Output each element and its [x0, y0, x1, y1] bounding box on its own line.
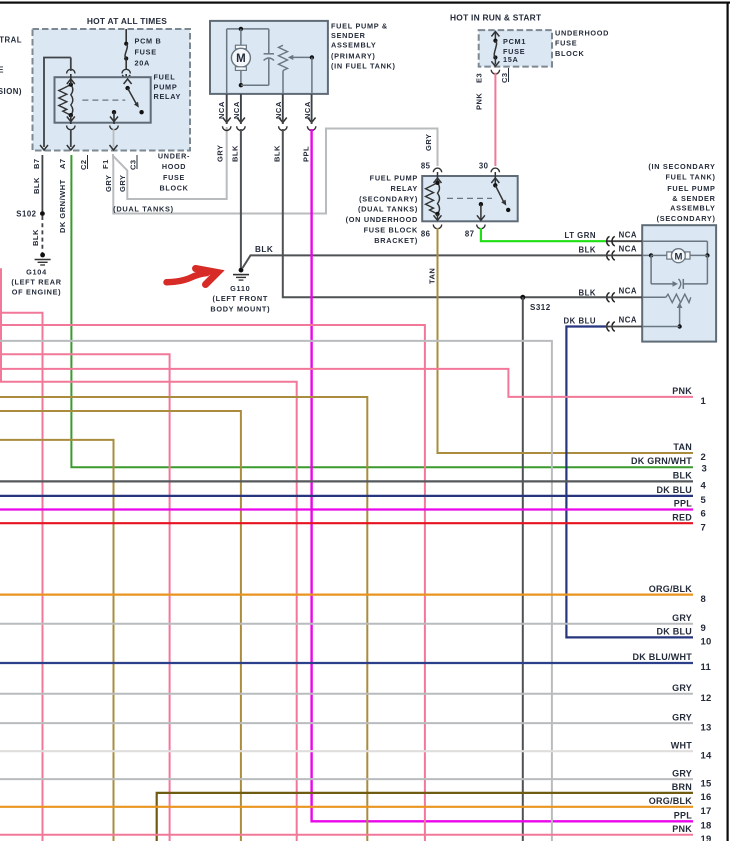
svg-text:FUEL PUMP: FUEL PUMP	[370, 174, 418, 183]
svg-text:C2: C2	[79, 159, 88, 170]
fuel sender resistor (secondary, horizontal zigzag)	[666, 294, 691, 302]
svg-text:PPL: PPL	[674, 811, 693, 821]
svg-text:HOT AT ALL TIMES: HOT AT ALL TIMES	[87, 16, 167, 26]
svg-text:20A: 20A	[135, 59, 151, 68]
svg-text:DK GRN/WHT: DK GRN/WHT	[58, 179, 67, 233]
relay 2 switch	[493, 183, 497, 187]
svg-text:RELAY: RELAY	[390, 184, 418, 193]
svg-text:OF ENGINE): OF ENGINE)	[12, 288, 62, 297]
wire GRY exit 12	[0, 693, 693, 695]
svg-text:7: 7	[701, 522, 707, 533]
svg-text:M: M	[236, 53, 246, 65]
wire switch output to F1	[113, 112, 115, 124]
wire TAN route 1	[0, 397, 367, 841]
svg-text:DK BLU: DK BLU	[564, 317, 596, 326]
svg-text:9: 9	[701, 623, 707, 634]
fuse PCM1 15A	[491, 32, 499, 37]
wire DK BLU exit 5	[0, 495, 693, 497]
connector (( DK BLU	[607, 322, 610, 332]
wire GRY exit 13	[0, 722, 693, 724]
sender wiper arrow (primary)	[292, 56, 312, 58]
pin 87	[480, 204, 482, 219]
primary pump inner wiring top rail	[227, 28, 269, 30]
svg-text:NCA: NCA	[274, 101, 283, 119]
svg-text:BRN: BRN	[672, 782, 692, 792]
svg-text:(LEFT REAR: (LEFT REAR	[11, 278, 61, 287]
svg-text:PNK: PNK	[475, 93, 484, 110]
svg-text:BLK: BLK	[673, 471, 692, 481]
svg-text:16: 16	[701, 792, 712, 803]
svg-text:5: 5	[701, 495, 707, 506]
wire PNK route 2	[0, 313, 43, 841]
pin stub wires primary	[226, 94, 228, 124]
svg-text:DK GRN/WHT: DK GRN/WHT	[631, 456, 692, 466]
wire GRY exit 15	[0, 778, 693, 780]
svg-text:1: 1	[701, 396, 707, 407]
svg-text:LT GRN: LT GRN	[565, 231, 596, 240]
fuel pump relay box	[55, 77, 151, 123]
svg-text:TAN: TAN	[673, 442, 692, 452]
connector (( BLK	[607, 293, 610, 303]
svg-text:FUEL PUMP: FUEL PUMP	[667, 184, 715, 193]
svg-text:6: 6	[701, 509, 707, 520]
svg-text:(IN SECONDARY: (IN SECONDARY	[648, 162, 715, 171]
svg-text:GRY: GRY	[216, 145, 225, 162]
wire PPL exit 6	[0, 508, 693, 510]
primary pump pin connectors (arrows+arcs)	[223, 118, 231, 123]
underhood fuse block 2 (dashed box)	[479, 30, 552, 67]
svg-text:NCA: NCA	[619, 287, 637, 296]
svg-text:PUMP: PUMP	[154, 82, 178, 91]
svg-text:(SECONDARY): (SECONDARY)	[359, 194, 418, 203]
svg-text:BLK: BLK	[31, 229, 40, 246]
svg-text:11: 11	[701, 662, 712, 673]
relay switch output contact	[112, 110, 116, 114]
page top rule	[0, 2, 730, 4]
page right rule	[727, 2, 729, 841]
svg-text:(ON UNDERHOOD: (ON UNDERHOOD	[346, 215, 418, 224]
pin 86	[437, 214, 439, 220]
svg-text:GRY: GRY	[672, 683, 692, 693]
wire PNK fuse to relay pin 30	[494, 73, 496, 166]
svg-text:SION): SION)	[0, 87, 22, 96]
svg-text:TAN: TAN	[427, 268, 436, 284]
svg-text:12: 12	[701, 693, 712, 704]
svg-text:DK BLU: DK BLU	[657, 627, 693, 637]
wire TAN route 2	[0, 411, 241, 841]
wire PNK left-edge route (down then right then down)	[1, 268, 297, 841]
svg-text:NCA: NCA	[619, 316, 637, 325]
connector (( LT GRN	[607, 236, 610, 246]
fuse PCM B 20A	[125, 29, 127, 44]
svg-text:& SENDER: & SENDER	[672, 194, 715, 203]
relay pin arcs/arrows	[67, 79, 75, 84]
fuel pump and sender assembly (secondary) box	[642, 225, 716, 341]
svg-text:BLK: BLK	[578, 246, 596, 255]
svg-text:FUEL: FUEL	[154, 73, 176, 82]
wire BLK exit 4	[0, 480, 693, 482]
wire TAN route 3	[0, 440, 114, 841]
svg-text:15: 15	[701, 778, 713, 789]
svg-text:S312: S312	[530, 303, 551, 312]
relay switch blade	[125, 86, 129, 90]
svg-text:RED: RED	[672, 512, 692, 522]
red annotation arrow pointing to G110	[167, 273, 208, 282]
svg-text:FUSE: FUSE	[555, 39, 577, 48]
svg-text:G104: G104	[26, 268, 47, 277]
svg-text:G110: G110	[230, 284, 250, 293]
svg-text:BRACKET): BRACKET)	[374, 236, 418, 245]
svg-text:FUSE: FUSE	[135, 48, 157, 57]
ground G110	[239, 268, 244, 273]
svg-text:PPL: PPL	[301, 146, 310, 162]
svg-text:GRY: GRY	[424, 134, 433, 151]
splice S102	[40, 211, 45, 216]
wire PNK route 3	[0, 325, 425, 841]
motor M (primary)	[240, 29, 242, 46]
svg-text:17: 17	[701, 806, 712, 817]
svg-text:BLK: BLK	[32, 177, 41, 194]
svg-text:BLOCK: BLOCK	[159, 183, 188, 192]
svg-text:UNDER-: UNDER-	[158, 152, 190, 161]
relay dashed link coil-switch	[82, 99, 125, 101]
svg-text:10: 10	[701, 637, 712, 648]
wire PNK exit 1 (jog)	[0, 369, 693, 397]
svg-text:ASSEMBLY: ASSEMBLY	[331, 41, 376, 50]
svg-text:M: M	[674, 251, 682, 262]
capacitor loop (secondary)	[650, 255, 652, 284]
wire coil-bottom to A7	[70, 115, 72, 124]
svg-text:GRY: GRY	[672, 712, 692, 722]
svg-text:TRAL: TRAL	[0, 36, 22, 45]
svg-text:C3: C3	[129, 159, 138, 170]
connector arc at relay pin 30-equివ (fuse to relay)	[122, 69, 130, 73]
wire ORG/BLK exit 17	[0, 806, 693, 808]
svg-text:BODY MOUNT): BODY MOUNT)	[210, 305, 270, 314]
svg-text:30: 30	[479, 162, 489, 171]
wire BLK S312 down to bottom	[522, 297, 524, 841]
svg-text:19: 19	[701, 834, 712, 841]
svg-text:FUSE: FUSE	[163, 173, 185, 182]
svg-text:BLK: BLK	[578, 288, 596, 297]
svg-text:NCA: NCA	[303, 101, 312, 119]
svg-text:GRY: GRY	[118, 175, 127, 192]
svg-text:ORG/BLK: ORG/BLK	[649, 796, 692, 806]
wire GRY F1 to primary pump GRY pin	[113, 127, 227, 199]
svg-text:(IN FUEL TANK): (IN FUEL TANK)	[331, 62, 396, 71]
relay coil	[59, 85, 71, 116]
svg-text:PNK: PNK	[672, 824, 692, 834]
svg-text:E3: E3	[475, 73, 484, 83]
wire ORG/BLK exit 8	[0, 593, 693, 595]
wire DK GRN/WHT: A7 down, right, exit 3	[71, 155, 693, 467]
svg-text:86: 86	[421, 230, 431, 239]
wire WHT exit 14	[0, 750, 693, 752]
svg-text:RELAY: RELAY	[154, 92, 182, 101]
svg-text:2: 2	[701, 452, 707, 463]
wire PPL primary to exit 18	[312, 129, 693, 821]
wire GRY exit 9	[0, 623, 693, 625]
svg-text:GRY: GRY	[672, 768, 692, 778]
wire BRN exit 16	[157, 793, 693, 841]
svg-text:DK BLU/WHT: DK BLU/WHT	[633, 652, 693, 662]
underhood fuse block (dashed box, top-left)	[33, 29, 191, 151]
svg-text:ASSEMBLY: ASSEMBLY	[670, 203, 715, 212]
svg-text:85: 85	[421, 162, 431, 171]
wire PNK route 4	[0, 354, 170, 841]
relay 2 coil	[426, 183, 438, 214]
wire TAN pin86 to exit 2	[438, 228, 694, 453]
svg-text:B7: B7	[32, 158, 41, 169]
svg-text:PPL: PPL	[674, 499, 693, 509]
wire BLK G110 to secondary pump	[243, 255, 607, 268]
svg-text:WHT: WHT	[671, 740, 692, 750]
svg-text:PCM B: PCM B	[135, 37, 162, 46]
ground G104	[40, 253, 45, 258]
wire GRY long route	[0, 341, 552, 841]
wire RED exit 7	[0, 522, 693, 524]
motor M (secondary)	[651, 254, 667, 256]
wire PNK exit 19	[0, 834, 693, 836]
svg-text:BLOCK: BLOCK	[555, 49, 584, 58]
fuel pump relay (secondary) box	[422, 176, 518, 221]
svg-text:87: 87	[465, 230, 475, 239]
svg-text:PNK: PNK	[672, 386, 692, 396]
svg-text:PCM1: PCM1	[503, 37, 526, 46]
svg-text:FUEL TANK): FUEL TANK)	[665, 172, 715, 181]
svg-text:(SECONDARY): (SECONDARY)	[657, 214, 716, 223]
svg-text:HOT IN RUN & START: HOT IN RUN & START	[450, 13, 542, 23]
svg-text:BLK: BLK	[273, 145, 282, 162]
svg-text:(DUAL TANKS): (DUAL TANKS)	[113, 204, 174, 213]
svg-text:BLK: BLK	[231, 145, 240, 162]
wire LT GRN pin87 to secondary pump	[481, 228, 606, 241]
svg-text:NCA: NCA	[217, 101, 226, 119]
wire BLK primary-1 to G110	[240, 129, 242, 268]
svg-text:NCA: NCA	[232, 101, 241, 119]
svg-text:F1: F1	[101, 159, 110, 169]
svg-text:8: 8	[701, 594, 707, 605]
svg-text:3: 3	[702, 464, 708, 475]
relay 2 dashed link	[447, 197, 492, 199]
svg-text:A7: A7	[58, 158, 67, 169]
svg-text:C3: C3	[500, 72, 509, 83]
fuel sender variable resistor (primary)	[279, 45, 288, 70]
connector (( BLK	[607, 251, 610, 261]
wire BLK dashed S102 to G104	[41, 216, 43, 253]
svg-text:FUEL PUMP &: FUEL PUMP &	[331, 21, 388, 30]
svg-text:HOOD: HOOD	[162, 162, 186, 171]
svg-text:FUSE BLOCK: FUSE BLOCK	[364, 226, 418, 235]
svg-text:(DUAL TANKS): (DUAL TANKS)	[358, 205, 418, 214]
wire coil-top to B7	[70, 74, 72, 85]
svg-text:NCA: NCA	[619, 230, 637, 239]
svg-text:SENDER: SENDER	[331, 31, 366, 40]
secondary inner: BLK rail to motor left	[642, 254, 651, 256]
capacitor (primary)	[268, 29, 270, 54]
wire DK BLU secondary to exit 10	[566, 327, 693, 638]
svg-text:UNDERHOOD: UNDERHOOD	[555, 28, 609, 37]
fuel pump and sender assembly (primary) box	[210, 21, 328, 94]
svg-text:14: 14	[701, 750, 713, 761]
wire BLK from B7 to S102	[41, 155, 43, 214]
svg-text:GRY: GRY	[672, 613, 692, 623]
svg-text:GRY: GRY	[104, 175, 113, 192]
svg-text:NCA: NCA	[619, 245, 637, 254]
wire BLK primary-2 down to S312 and secondary	[283, 129, 608, 297]
svg-text:ORG/BLK: ORG/BLK	[649, 584, 692, 594]
svg-text:18: 18	[701, 821, 712, 832]
splice S312	[520, 295, 525, 300]
svg-text:13: 13	[701, 722, 712, 733]
sender wiper arrow (secondary)	[679, 306, 681, 327]
wire DK BLU/WHT exit 11	[0, 662, 693, 664]
wire GRY F1 to relay-85 (long route)	[113, 129, 438, 214]
svg-text:BLK: BLK	[255, 245, 273, 254]
svg-text:(LEFT FRONT: (LEFT FRONT	[213, 294, 269, 303]
svg-text:E: E	[0, 66, 4, 75]
svg-text:DK BLU: DK BLU	[657, 485, 693, 495]
svg-text:S102: S102	[16, 210, 36, 219]
svg-text:15A: 15A	[503, 55, 519, 64]
svg-text:(PRIMARY): (PRIMARY)	[331, 52, 376, 61]
secondary inner: LT GRN rail to motor right	[606, 240, 642, 242]
svg-text:4: 4	[701, 481, 707, 492]
